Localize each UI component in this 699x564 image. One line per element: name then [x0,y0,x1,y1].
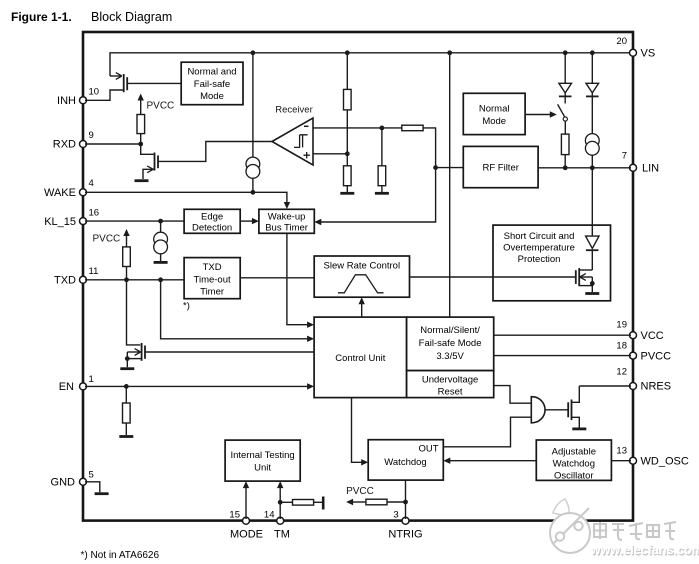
svg-text:Block Diagram: Block Diagram [91,10,172,24]
box Normal Mode [463,93,525,134]
arrow Oscillator to Watchdog [443,458,536,464]
box Adjustable Watchdog Oscillator [536,440,611,482]
wire Wake-up Bus Timer to Control Unit [287,233,308,324]
svg-text:INH: INH [57,95,76,107]
svg-text:Receiver: Receiver [275,105,313,116]
svg-text:RXD: RXD [53,139,76,151]
svg-text:TXD: TXD [203,262,222,273]
diode D1 [559,53,572,104]
arrow Control Unit up to Slew Rate Control [359,297,365,317]
wire LIN rail [538,167,631,169]
node receiver top output junction [380,126,385,131]
svg-text:PVCC: PVCC [147,101,175,112]
wire I2 to LIN rail [591,155,593,168]
diode D2 [586,53,599,134]
svg-text:Adjustable: Adjustable [552,447,596,458]
wire R3 to ground [346,186,348,192]
svg-text:PVCC: PVCC [93,234,121,245]
box RF Filter [463,146,538,187]
svg-text:Detection: Detection [192,222,232,233]
svg-text:Normal: Normal [479,104,510,115]
pin 5 GND [51,469,94,488]
watermark logo elecfans [550,499,590,553]
pin 14 TM [264,510,290,541]
node WAKE junction [251,190,256,195]
wire TM node to R10 [280,501,292,503]
arrow TM into Internal Testing Unit [277,481,283,519]
wire RXD pin to node [85,143,141,145]
box Watchdog with OUT [368,440,443,480]
wire NTRIG node to R9 [387,501,406,503]
wire R10 to test terminal [314,501,322,503]
box Slew Rate Control [314,256,409,297]
wire node to R5 [381,128,383,166]
current source I1 (receiver bias) [246,157,260,178]
transistor Q4 TXD monitor [120,343,145,369]
arrow Normal Mode to switch [525,111,557,117]
pin 1 EN [59,374,94,393]
wire EN rail [85,385,308,387]
resistor R6 LIN slave termination [561,134,569,155]
svg-text:VCC: VCC [641,330,664,342]
svg-text:11: 11 [89,266,99,277]
svg-text:Fail-safe Mode: Fail-safe Mode [419,338,482,349]
svg-text:GND: GND [51,477,76,489]
svg-text:Edge: Edge [201,211,223,222]
wire Watchdog to NTRIG [405,480,407,519]
box Normal/Silent/Fail-safe Mode 3.3/5V [407,317,494,371]
svg-text:15: 15 [229,510,240,521]
svg-text:5: 5 [89,469,94,480]
wire Q2 gate to receiver input [158,142,272,162]
svg-text:Control Unit: Control Unit [335,353,386,364]
ground under I3 [154,261,168,264]
pin 20 VS [616,36,655,59]
wire WAKE pin rail [85,192,287,204]
svg-text:3.3/5V: 3.3/5V [436,351,464,362]
wire PVCC [494,355,631,357]
wire INH pin to transistor [85,90,123,100]
pin 18 PVCC [616,341,671,363]
svg-text:PVCC: PVCC [641,350,672,362]
svg-text:Figure 1-1.: Figure 1-1. [11,10,72,24]
svg-text:NTRIG: NTRIG [388,529,422,541]
svg-text:Fail-safe: Fail-safe [194,79,230,90]
wire R7 to TXD rail [126,267,128,280]
pin 16 KL_15 [44,208,99,228]
svg-text:Normal/Silent/: Normal/Silent/ [420,325,480,336]
svg-text:Mode: Mode [482,116,506,127]
pin 13 WD_OSC [616,446,688,468]
svg-text:7: 7 [622,151,627,162]
svg-text:Undervoltage: Undervoltage [422,375,479,386]
current source I2 (LIN pull-up) [585,134,599,156]
svg-text:Bus Timer: Bus Timer [265,222,308,233]
arrow WAKE into Wake-up Bus Timer top [284,202,290,209]
svg-text:16: 16 [89,208,100,219]
op-amp U1 receiver comparator [272,118,313,165]
svg-text:14: 14 [264,510,275,521]
svg-text:WD_OSC: WD_OSC [641,455,689,467]
box TXD Time-out Timer [184,258,240,299]
node receiver bottom output junction [345,151,350,156]
terminal bar TM test point [322,497,325,510]
wire top rail to R2 chain [346,53,348,90]
arrow wake-up branch into Control Unit [307,322,314,328]
svg-text:EN: EN [59,381,74,393]
wire Control Unit to Watchdog [352,398,362,463]
node KL_15 junction [158,219,163,224]
wire R8 to ground [125,423,127,435]
pin 9 RXD [53,130,94,151]
wire KL_15 rail [85,220,184,222]
wire LIN down to short-circuit block [591,168,593,236]
svg-text:TM: TM [274,529,290,541]
power PVCC arrow near INH [138,94,144,115]
resistor R2 [344,89,352,110]
ground GND pin [95,492,109,495]
arrow Edge Detection to Wake-up Bus Timer [240,218,259,224]
wire receiver output bottom [313,153,347,155]
svg-text:Watchdog: Watchdog [384,457,426,468]
node top rail junction E [590,50,595,55]
current source I3 (KL_15) [154,232,168,254]
wire WD_OSC [611,460,631,462]
svg-text:RF Filter: RF Filter [482,163,518,174]
svg-text:Mode: Mode [200,91,224,102]
resistor R5 to ground [378,166,386,186]
wire TXD rail [85,279,184,281]
pin 4 WAKE [44,178,94,199]
diode D3 inside protection block [586,236,599,270]
arrow MODE into Internal Testing Unit [243,481,249,519]
ground under R8 [119,435,133,438]
transistor Q2 RXD driver [141,144,158,179]
node LIN junction I2 [590,165,595,170]
svg-text:Timer: Timer [200,287,224,298]
svg-text:Time-out: Time-out [194,274,231,285]
node top rail junction D [563,50,568,55]
resistor R1 pull-up on RXD [137,115,145,134]
wire LIN feed to wake-up timer [321,168,436,222]
ground under Q2 [135,179,149,182]
arrow into Wake-up Bus Timer right [314,219,321,225]
wire Q1 gate to Normal and Fail-safe Mode box [127,82,181,84]
gate U2 AND [531,397,545,423]
resistor R4 horizontal filter [402,125,423,131]
pin 12 NRES [616,366,671,392]
wire R5 to ground [381,186,383,192]
wire R6 to LIN rail [564,155,566,168]
svg-text:VS: VS [641,48,656,60]
box Internal Testing Unit [225,440,300,481]
svg-text:KL_15: KL_15 [44,216,76,228]
svg-text:Unit: Unit [254,463,271,474]
svg-text:20: 20 [616,36,627,47]
svg-text:19: 19 [616,320,627,331]
wire Undervoltage Reset to gate input [494,386,532,404]
box Wake-up Bus Timer [259,209,314,233]
resistor R8 EN pull-down [123,403,131,423]
watermark text elecfans [590,522,699,558]
wire I3 to ground [160,254,162,261]
node RXD junction [138,142,143,147]
wire R1 to RXD node [140,134,142,144]
svg-text:OUT: OUT [418,444,438,455]
wire Watchdog OUT to gate input [443,417,531,447]
arrow R9 to PVCC left [346,499,366,505]
wire resistor R4 to LIN node [423,128,436,168]
pin 15 MODE [229,510,263,541]
svg-text:Normal and: Normal and [187,67,236,78]
svg-text:1: 1 [89,374,94,385]
node top rail junction C [447,50,452,55]
svg-text:Short Circuit and: Short Circuit and [504,231,575,242]
transistor Q3 LIN driver [576,268,600,293]
svg-text:Overtemperature: Overtemperature [503,243,575,254]
arrow into Watchdog left [361,459,368,465]
svg-text:*): *) [183,301,190,312]
svg-text:MODE: MODE [230,529,263,541]
IC boundary [83,32,633,521]
svg-text:LIN: LIN [642,163,659,175]
pin 19 VCC [616,320,663,343]
svg-text:Watchdog: Watchdog [553,459,595,470]
pin 7 LIN [622,151,659,175]
transistor Q5 NRES driver [568,386,586,429]
pin 11 TXD [54,266,98,287]
svg-text:13: 13 [616,446,627,457]
svg-text:*) Not in ATA6626: *) Not in ATA6626 [81,550,160,561]
node TM junction [278,500,283,505]
wire TXD to control unit input [161,280,308,339]
svg-text:Internal Testing: Internal Testing [230,450,294,461]
svg-text:9: 9 [89,130,94,141]
ground under R5 [375,192,389,195]
svg-text:4: 4 [89,178,94,189]
node LIN left junction [433,165,438,170]
wire R2 to receiver plus output [346,110,348,166]
resistor R10 TM [293,500,314,506]
box Edge Detection [184,209,240,233]
wire long rail from top to mode block [449,53,451,317]
pin 3 NTRIG [388,510,422,541]
svg-text:Wake-up: Wake-up [268,211,306,222]
pin 10 INH [57,87,99,108]
wire gate output to Q5 [545,409,568,411]
svg-text:3: 3 [393,510,398,521]
node EN junction [124,384,129,389]
arrow TXD branch into Control Unit [307,336,314,342]
svg-text:www.elecfans.com: www.elecfans.com [590,543,699,557]
box Undervoltage Reset [407,371,494,398]
svg-text:TXD: TXD [54,275,76,287]
box Normal and Fail-safe Mode [181,62,243,104]
ground under R3 [340,192,354,195]
wire slew rate control to Q3 gate [410,276,576,278]
svg-text:12: 12 [616,366,627,377]
wire NRES [579,385,631,387]
svg-text:Protection: Protection [518,254,561,265]
resistor R7 TXD pull-up [123,247,131,267]
arrow EN into Control Unit [307,383,314,389]
wire GND pin to ground [85,482,100,493]
wire VCC [494,334,631,336]
svg-text:WAKE: WAKE [44,187,76,199]
wire Q4 gate to Control Unit [145,351,314,353]
wire LIN node to RF filter [436,167,464,169]
switch S1 (normal mode) [558,104,568,134]
box Short Circuit and Overtemperature Protection [493,225,611,301]
wire node to current source I3 [160,221,162,232]
svg-text:10: 10 [89,87,100,98]
wire TXD timer to slew rate control [240,277,314,279]
transistor Q1 INH high-side [110,73,127,93]
wire TXD node1 down to Q4 [127,280,141,345]
resistor R9 NTRIG pull-up [366,499,387,505]
wire EN node to R8 [125,386,127,403]
resistor R3 to ground [344,166,352,186]
wire top rail VS [110,53,633,76]
node TXD junction 1 [124,277,129,282]
svg-text:Oscillator: Oscillator [554,471,594,482]
svg-text:PVCC: PVCC [346,486,374,497]
svg-text:NRES: NRES [641,381,672,393]
wire receiver output top to resistor network [313,127,402,129]
svg-text:18: 18 [616,341,627,352]
box Control Unit [314,317,407,398]
node top rail junction B [345,50,350,55]
node top rail junction A [251,50,256,55]
wire current source to WAKE rail [252,178,254,192]
svg-text:Slew Rate Control: Slew Rate Control [324,261,401,272]
node NTRIG junction [403,500,408,505]
node TXD junction 2 [158,277,163,282]
svg-text:Reset: Reset [438,386,463,397]
power PVCC arrow on TXD [123,229,129,247]
node LIN junction R6 [563,165,568,170]
wire bias from top rail down to current source [252,53,254,157]
